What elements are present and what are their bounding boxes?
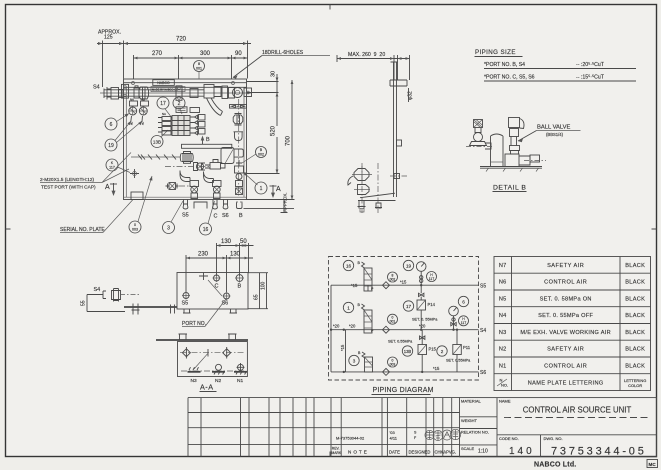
svg-text:NA: NA bbox=[162, 112, 166, 116]
spare plates above manifold bbox=[176, 107, 187, 113]
svg-text:DATE: DATE bbox=[389, 450, 400, 455]
panel outline bbox=[124, 79, 247, 200]
regulator P11 bbox=[453, 345, 462, 355]
pipe junction dots bbox=[330, 284, 458, 373]
svg-text:18DRILL-6HOLES: 18DRILL-6HOLES bbox=[262, 50, 304, 56]
ext line from B port to APPROX dim bbox=[244, 208, 295, 210]
svg-text:PORT NO.: PORT NO. bbox=[182, 321, 206, 327]
right column plate with arrows bbox=[230, 105, 247, 109]
connecting centerlines bbox=[165, 166, 210, 168]
A-A bottom centerline bbox=[181, 370, 244, 372]
port S6 bbox=[224, 293, 230, 299]
elbow assembly with curved pipe bbox=[204, 85, 214, 99]
svg-text:001: 001 bbox=[390, 320, 396, 324]
svg-text:*20: *20 bbox=[349, 324, 356, 329]
left fitting with hatch bbox=[474, 120, 483, 128]
svg-text:SET. 0.55MPa: SET. 0.55MPa bbox=[388, 340, 413, 344]
svg-text:P11: P11 bbox=[463, 345, 471, 350]
svg-text:BLACK: BLACK bbox=[625, 280, 645, 286]
column body bbox=[491, 134, 504, 167]
balloon 6 bbox=[105, 118, 117, 130]
svg-text:N1: N1 bbox=[237, 378, 243, 384]
svg-text:55: 55 bbox=[81, 300, 87, 306]
balloon 16 bbox=[343, 260, 353, 270]
svg-text:BLACK: BLACK bbox=[625, 330, 645, 336]
balloon 17 bbox=[403, 301, 413, 311]
rail union fitting bbox=[134, 88, 139, 98]
svg-text:CONTROL AIR SOURCE UNIT: CONTROL AIR SOURCE UNIT bbox=[523, 406, 632, 415]
left bracket plate on panel bbox=[122, 84, 129, 98]
svg-text:SAFETY AIR: SAFETY AIR bbox=[547, 263, 584, 269]
hanko stamp 2 bbox=[433, 431, 443, 441]
svg-text:SET. 0.55MPa: SET. 0.55MPa bbox=[446, 359, 471, 363]
svg-text:PIPING SIZE: PIPING SIZE bbox=[475, 49, 516, 56]
svg-text:*15: *15 bbox=[351, 283, 358, 288]
top flange bbox=[390, 80, 407, 86]
right hex fitting bbox=[233, 114, 243, 126]
balloon 2 bbox=[437, 346, 447, 356]
balloon 6 bbox=[458, 296, 468, 306]
pipe S6 line bbox=[331, 371, 479, 373]
check diamond S5 bbox=[383, 282, 390, 289]
svg-text:2: 2 bbox=[441, 349, 444, 354]
svg-text:SET. 0. 55MPa: SET. 0. 55MPa bbox=[412, 318, 438, 322]
svg-text:A: A bbox=[105, 184, 110, 191]
NABCO maker plate bbox=[153, 80, 175, 86]
main pipe lines through rail bbox=[104, 90, 204, 96]
mid horizontal bar with B section arrow bbox=[182, 144, 232, 148]
svg-text:RELATION NO.: RELATION NO. bbox=[461, 430, 489, 435]
svg-text:WEIGHT: WEIGHT bbox=[461, 418, 478, 423]
gauge on S5 bbox=[416, 262, 426, 272]
svg-text:19: 19 bbox=[406, 264, 412, 269]
valve bowtie on stem below S5 bbox=[419, 285, 424, 296]
dim line 720 bbox=[97, 41, 251, 88]
right elbow flange bbox=[229, 88, 235, 99]
gauge circles bbox=[129, 107, 137, 115]
svg-text:S5: S5 bbox=[480, 284, 486, 290]
foot baseline bbox=[358, 193, 396, 200]
centerline verticals bbox=[361, 163, 363, 213]
leader arrow to valve bbox=[518, 131, 537, 142]
svg-text:117: 117 bbox=[461, 321, 467, 325]
right valve column bbox=[235, 160, 244, 195]
svg-text:520: 520 bbox=[271, 125, 277, 136]
svg-text:13B: 13B bbox=[404, 349, 412, 354]
svg-text:SET. 0. 58MPa ON: SET. 0. 58MPa ON bbox=[540, 297, 592, 303]
balloon B/002 right bbox=[256, 147, 267, 158]
svg-text:N6: N6 bbox=[499, 280, 507, 286]
svg-text:CONTROL AIR: CONTROL AIR bbox=[544, 364, 587, 370]
valve body lower bbox=[358, 185, 370, 195]
mount feet below bbox=[183, 309, 237, 313]
svg-text:BLACK: BLACK bbox=[625, 263, 645, 269]
rail clamp right bbox=[222, 86, 228, 99]
left small flange fitting bbox=[166, 183, 179, 190]
check diamond S6 bbox=[383, 368, 390, 375]
svg-text:B: B bbox=[206, 137, 210, 143]
valve body bbox=[510, 129, 519, 137]
svg-text:NAME PLATE LETTERING: NAME PLATE LETTERING bbox=[528, 381, 604, 387]
svg-text:720: 720 bbox=[176, 37, 187, 43]
A-A view rect bbox=[178, 342, 248, 377]
svg-text:270: 270 bbox=[152, 51, 163, 57]
top rail lines bbox=[124, 83, 247, 88]
svg-text:(BBS1/4): (BBS1/4) bbox=[546, 132, 564, 137]
svg-text:C: C bbox=[214, 214, 218, 220]
svg-text:117: 117 bbox=[429, 277, 435, 281]
nameplate lettering table bbox=[494, 257, 651, 391]
bolts on thick line bbox=[132, 304, 140, 315]
balloon 19 bbox=[403, 260, 413, 270]
cross symbol bbox=[130, 169, 139, 178]
svg-text:BALL VALVE: BALL VALVE bbox=[537, 125, 571, 131]
svg-text:140: 140 bbox=[509, 446, 535, 457]
A-A centerline top row bbox=[180, 352, 245, 354]
edge bracket right bbox=[244, 88, 252, 97]
gauge drain arrows bbox=[131, 116, 143, 123]
pipe S4 line bbox=[331, 329, 479, 331]
hanko stamp 1 bbox=[425, 430, 434, 439]
svg-text:M-73753044-02: M-73753044-02 bbox=[336, 436, 365, 441]
tee body under valve bbox=[505, 154, 519, 167]
balloon 0/003 bbox=[388, 357, 398, 367]
svg-text:73753344-05: 73753344-05 bbox=[551, 446, 647, 458]
filter-regulator on S5 bbox=[362, 262, 365, 268]
serial no plate bbox=[131, 192, 143, 200]
B port dashed bracket bbox=[237, 203, 243, 209]
left label column bbox=[460, 398, 498, 457]
svg-text:MAX. 260 9 20: MAX. 260 9 20 bbox=[348, 52, 385, 58]
balloon 13B bbox=[151, 136, 163, 148]
svg-text:M/E EXH. VALVE WORKING AIR: M/E EXH. VALVE WORKING AIR bbox=[520, 330, 611, 336]
left riser joining lines bbox=[330, 285, 332, 372]
svg-text:1: 1 bbox=[260, 186, 263, 192]
svg-text:MADE BY NABCO CO: MADE BY NABCO CO bbox=[152, 88, 178, 92]
hangers above line bbox=[179, 334, 237, 340]
rail clamp mid bbox=[176, 86, 182, 101]
svg-text:*20: *20 bbox=[333, 324, 340, 329]
svg-text:16: 16 bbox=[346, 264, 352, 269]
svg-text:S4: S4 bbox=[93, 85, 100, 91]
svg-text:B: B bbox=[239, 213, 243, 219]
bolts below bbox=[358, 201, 366, 209]
dashed boundary bbox=[329, 257, 479, 381]
svg-text:100: 100 bbox=[261, 281, 267, 290]
regulator P15 bbox=[418, 345, 427, 355]
diagonal leader inside A-A bbox=[194, 353, 209, 369]
dim 55 bbox=[87, 295, 125, 312]
tee assembly bbox=[210, 160, 225, 170]
svg-text:N2: N2 bbox=[499, 347, 507, 353]
svg-text:S4: S4 bbox=[94, 287, 101, 293]
valve circle upper bbox=[354, 169, 369, 181]
right dims: 30 bbox=[247, 74, 279, 126]
svg-text:APVG.: APVG. bbox=[443, 450, 456, 455]
svg-text:*15: *15 bbox=[433, 366, 440, 371]
valve stack left bbox=[190, 181, 199, 199]
pipe loop below S5 bbox=[194, 202, 207, 209]
svg-text:BLACK: BLACK bbox=[625, 313, 645, 319]
svg-text:001: 001 bbox=[196, 67, 202, 71]
balloon H/117 on gauge stem bbox=[427, 272, 437, 282]
svg-text:-- :15⁵·⁵CuT: -- :15⁵·⁵CuT bbox=[576, 75, 605, 81]
regulator P14 bbox=[417, 300, 426, 310]
svg-text:S6: S6 bbox=[222, 213, 229, 219]
svg-text:P14: P14 bbox=[428, 302, 436, 307]
pipe to tee bbox=[205, 165, 210, 168]
svg-text:NA: NA bbox=[130, 97, 134, 101]
bellows filter bbox=[180, 152, 193, 164]
svg-text:S5: S5 bbox=[182, 213, 189, 219]
svg-text:S4: S4 bbox=[480, 328, 486, 334]
svg-text:DWG. NO.: DWG. NO. bbox=[544, 436, 563, 441]
svg-text:N4: N4 bbox=[499, 313, 507, 319]
bowtie on S4 gauge stem bbox=[451, 322, 456, 325]
svg-text:COLOR: COLOR bbox=[628, 383, 642, 388]
svg-text:002: 002 bbox=[258, 153, 264, 157]
svg-text:N3: N3 bbox=[499, 330, 507, 336]
rail hatch ticks bbox=[486, 168, 539, 171]
balloon 0/001 bbox=[388, 314, 398, 324]
svg-text:APPROX.: APPROX. bbox=[283, 192, 288, 212]
A-A ports top row diamonds bbox=[182, 347, 190, 359]
pipe S5 line bbox=[331, 284, 479, 286]
filter-regulator on S4 bbox=[362, 304, 365, 310]
rail hex fitting bbox=[139, 87, 149, 99]
svg-text:BLACK: BLACK bbox=[625, 297, 645, 303]
revision table grid bbox=[188, 398, 460, 445]
svg-text:002: 002 bbox=[390, 277, 396, 281]
svg-text:*15: *15 bbox=[400, 280, 407, 285]
svg-text:50: 50 bbox=[240, 239, 247, 245]
svg-text:230: 230 bbox=[198, 252, 209, 258]
svg-text:SCALE: SCALE bbox=[461, 446, 474, 451]
right pipe and plug bbox=[519, 156, 530, 165]
svg-text:1: 1 bbox=[347, 306, 350, 311]
svg-text:N2: N2 bbox=[215, 378, 221, 384]
svg-text:8: 8 bbox=[198, 62, 200, 66]
leader from drill note to panel bbox=[233, 56, 262, 78]
svg-text:TEST PORT (WITH CAP): TEST PORT (WITH CAP) bbox=[41, 185, 96, 191]
svg-text:117: 117 bbox=[109, 166, 115, 170]
balloon 1 right bbox=[255, 182, 267, 194]
svg-text:P15: P15 bbox=[429, 347, 437, 352]
svg-text:*20: *20 bbox=[419, 324, 426, 329]
svg-text:DESIGNED: DESIGNED bbox=[409, 450, 431, 455]
svg-text:N5: N5 bbox=[499, 297, 507, 303]
svg-text:130: 130 bbox=[230, 252, 241, 258]
drill holes top corners bbox=[132, 82, 135, 85]
svg-text:3: 3 bbox=[167, 226, 170, 232]
svg-text:17: 17 bbox=[160, 101, 166, 107]
svg-text:17: 17 bbox=[406, 304, 412, 309]
svg-text:1:10: 1:10 bbox=[478, 449, 488, 455]
hanko stamp 4 bbox=[450, 429, 460, 439]
svg-text:CODE NO.: CODE NO. bbox=[499, 436, 519, 441]
elbow right bbox=[204, 172, 214, 183]
balloon 0/003 bbox=[129, 221, 141, 233]
port S5 bbox=[183, 293, 189, 299]
footer logo box bbox=[647, 460, 658, 468]
svg-text:SAFETY AIR: SAFETY AIR bbox=[547, 347, 584, 353]
svg-text:3: 3 bbox=[353, 359, 356, 364]
svg-text:S6: S6 bbox=[480, 370, 486, 376]
svg-text:003: 003 bbox=[132, 228, 138, 232]
balloon K/117 bbox=[106, 159, 118, 171]
diagonal leader inside bbox=[208, 280, 222, 296]
svg-text:125: 125 bbox=[104, 35, 113, 41]
svg-text:A: A bbox=[276, 186, 281, 193]
svg-text:N1: N1 bbox=[499, 364, 507, 370]
svg-text:*PORT NO. B, S4: *PORT NO. B, S4 bbox=[484, 62, 525, 68]
balloon 2 bbox=[173, 97, 185, 109]
svg-text:2: 2 bbox=[178, 101, 181, 107]
rail fitting small bbox=[190, 89, 198, 98]
svg-text:NABCO: NABCO bbox=[157, 81, 170, 85]
big rounded manifold block bbox=[221, 148, 234, 164]
small fittings right of manifold bbox=[191, 115, 206, 135]
balloon H/117 second bbox=[459, 316, 469, 326]
svg-text:-- :20⁵·⁵CuT: -- :20⁵·⁵CuT bbox=[576, 62, 605, 68]
title block outline bbox=[460, 398, 657, 457]
balloon 19 bbox=[105, 139, 117, 151]
X-valve bbox=[194, 163, 206, 171]
svg-text:NABCO Ltd.: NABCO Ltd. bbox=[534, 462, 576, 469]
svg-text:13B: 13B bbox=[153, 140, 161, 145]
svg-text:003: 003 bbox=[390, 362, 396, 366]
valve stack mid bbox=[213, 181, 222, 199]
svg-text:NOTE: NOTE bbox=[348, 450, 369, 455]
plan view rect bbox=[177, 273, 248, 310]
test port chain line bbox=[131, 156, 181, 158]
svg-text:N3: N3 bbox=[191, 378, 197, 384]
balloon 1 bbox=[343, 302, 353, 312]
A-A view: top thick line bbox=[156, 339, 248, 341]
port C bbox=[214, 275, 220, 281]
balloon 3 bbox=[163, 222, 175, 234]
right dims: 700 bbox=[247, 80, 295, 200]
small fixture mid channel bbox=[397, 140, 402, 146]
svg-text:CONTROL AIR: CONTROL AIR bbox=[544, 280, 587, 286]
svg-text:SET. 0. 55MPa OFF: SET. 0. 55MPa OFF bbox=[538, 313, 593, 319]
svg-text:130: 130 bbox=[221, 239, 232, 245]
svg-text:2-M20X1.5 (LENGTH:12): 2-M20X1.5 (LENGTH:12) bbox=[40, 177, 95, 183]
gauge small labels bbox=[130, 101, 138, 106]
gauge on S4 bbox=[449, 306, 459, 316]
panel inner flange lines bbox=[124, 87, 247, 197]
svg-text:DETAIL B: DETAIL B bbox=[493, 185, 526, 192]
svg-text:N7: N7 bbox=[499, 263, 507, 269]
svg-text:90: 90 bbox=[235, 51, 242, 57]
name/code divider bbox=[497, 435, 657, 457]
squiggle handle bbox=[348, 176, 353, 185]
svg-text:NO.: NO. bbox=[501, 383, 508, 388]
filter-regulator on S6 bbox=[362, 352, 365, 358]
svg-text:30: 30 bbox=[271, 71, 277, 77]
port B bbox=[236, 275, 243, 282]
svg-text:*PORT NO. C, S5, S6: *PORT NO. C, S5, S6 bbox=[484, 75, 535, 81]
base rail bbox=[480, 167, 542, 169]
svg-text:700: 700 bbox=[286, 135, 292, 146]
svg-text:PIPING DIAGRAM: PIPING DIAGRAM bbox=[373, 387, 434, 394]
svg-text:6: 6 bbox=[110, 122, 113, 128]
elbow left bbox=[180, 171, 190, 182]
svg-text:A-A: A-A bbox=[200, 383, 213, 392]
svg-text:NB: NB bbox=[141, 97, 145, 101]
bottom port stubs bbox=[183, 200, 228, 207]
svg-text:S5: S5 bbox=[182, 301, 189, 307]
channel profile vertical bbox=[391, 62, 398, 197]
balloon 16 bbox=[200, 223, 212, 235]
svg-text:MARK: MARK bbox=[331, 451, 342, 455]
A-A bottom flanged ports N3 N2 N1 bbox=[188, 363, 248, 375]
svg-text:'03: '03 bbox=[390, 430, 396, 435]
right U-cup part bbox=[234, 132, 244, 141]
svg-text:4/11: 4/11 bbox=[390, 436, 398, 441]
balloon 8/002 bbox=[388, 272, 398, 282]
right dims 65 100 bbox=[248, 273, 268, 309]
ball valve vertical: top cap bbox=[509, 118, 520, 128]
svg-text:B: B bbox=[238, 284, 242, 290]
svg-text:NAME: NAME bbox=[499, 399, 511, 404]
svg-text:MC: MC bbox=[649, 462, 657, 467]
balloon 8/001 bbox=[194, 61, 205, 72]
thick mounting line left bbox=[124, 306, 177, 308]
balloon 3 bbox=[349, 355, 359, 365]
svg-text:SERIAL NO. PLATE: SERIAL NO. PLATE bbox=[60, 227, 105, 233]
svg-text:BLACK: BLACK bbox=[625, 347, 645, 353]
check diamond S4 bbox=[383, 326, 390, 333]
svg-text:65: 65 bbox=[254, 294, 260, 300]
svg-text:19: 19 bbox=[108, 143, 114, 149]
svg-text:6: 6 bbox=[462, 300, 465, 305]
svg-text:MATERIAL: MATERIAL bbox=[461, 399, 481, 404]
balloon 13B bbox=[402, 346, 412, 356]
hanko stamp 3 bbox=[442, 430, 452, 440]
svg-text:16: 16 bbox=[203, 227, 209, 233]
right column centerline bbox=[238, 99, 240, 196]
balloon 17 bbox=[157, 97, 169, 109]
dim line 270/300/90 bbox=[134, 55, 248, 79]
svg-text:0: 0 bbox=[134, 223, 136, 227]
manifold block grid bbox=[158, 116, 190, 136]
svg-text:300: 300 bbox=[200, 51, 211, 57]
svg-text:*15: *15 bbox=[340, 344, 345, 351]
branch riser *15 bbox=[345, 330, 347, 372]
svg-text:BLACK: BLACK bbox=[625, 364, 645, 370]
